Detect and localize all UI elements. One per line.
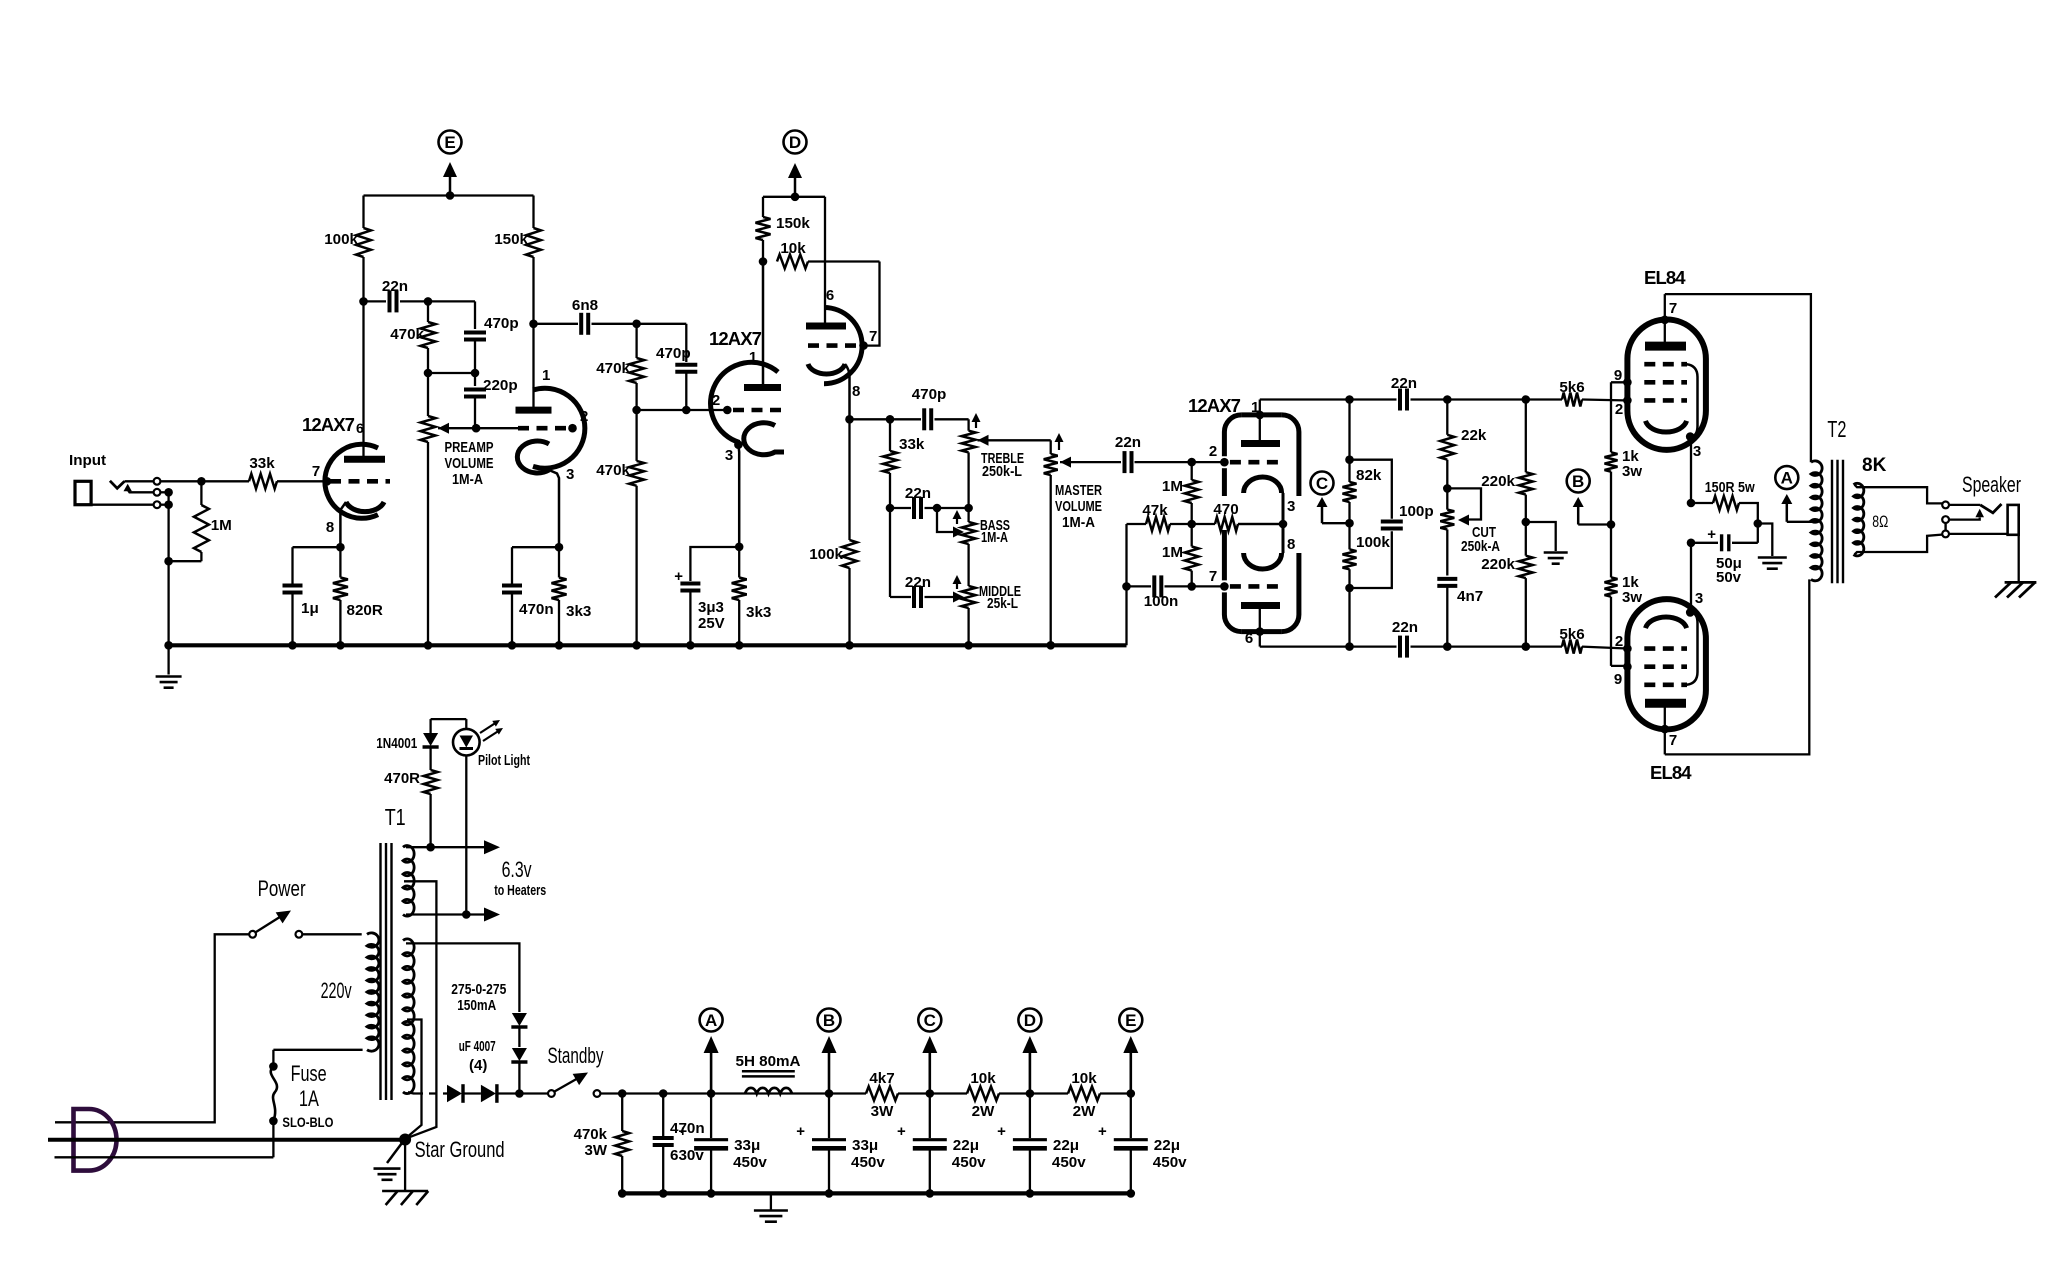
- svg-text:22n: 22n: [905, 574, 931, 591]
- svg-text:EL84: EL84: [1644, 267, 1686, 288]
- svg-text:22n: 22n: [1391, 375, 1417, 392]
- svg-text:2: 2: [1615, 401, 1623, 418]
- svg-text:50v: 50v: [1716, 569, 1742, 586]
- svg-text:450v: 450v: [851, 1154, 885, 1171]
- svg-text:D: D: [1024, 1011, 1036, 1030]
- svg-text:7: 7: [1669, 732, 1677, 749]
- svg-text:4k7: 4k7: [869, 1070, 894, 1087]
- svg-text:T1: T1: [385, 804, 406, 830]
- svg-text:3: 3: [1693, 443, 1701, 460]
- svg-text:470: 470: [1213, 501, 1238, 518]
- svg-text:3: 3: [1287, 498, 1295, 515]
- svg-text:470n: 470n: [519, 601, 554, 618]
- svg-text:Power: Power: [258, 876, 306, 901]
- svg-text:250k-L: 250k-L: [982, 463, 1022, 480]
- svg-text:B: B: [1572, 472, 1584, 491]
- svg-text:D: D: [789, 133, 801, 152]
- svg-text:3w: 3w: [1622, 463, 1642, 480]
- svg-text:8: 8: [1287, 536, 1295, 553]
- svg-text:C: C: [924, 1011, 936, 1030]
- svg-text:8: 8: [326, 519, 334, 536]
- svg-text:450v: 450v: [952, 1154, 986, 1171]
- svg-text:450v: 450v: [1052, 1154, 1086, 1171]
- svg-text:3: 3: [1695, 590, 1703, 607]
- svg-text:Input: Input: [69, 452, 106, 469]
- svg-text:150R 5w: 150R 5w: [1705, 479, 1755, 496]
- svg-text:450v: 450v: [1153, 1154, 1187, 1171]
- svg-text:3: 3: [725, 447, 733, 464]
- svg-text:1μ: 1μ: [301, 600, 319, 617]
- svg-text:150k: 150k: [494, 231, 528, 248]
- svg-text:470R: 470R: [384, 770, 420, 787]
- svg-text:33μ: 33μ: [852, 1137, 878, 1154]
- svg-text:1: 1: [749, 349, 757, 366]
- svg-text:2W: 2W: [1073, 1103, 1096, 1120]
- svg-text:A: A: [705, 1011, 717, 1030]
- svg-text:+: +: [897, 1123, 906, 1140]
- svg-text:Speaker: Speaker: [1962, 472, 2021, 497]
- svg-text:8Ω: 8Ω: [1872, 512, 1888, 531]
- svg-text:5k6: 5k6: [1559, 379, 1584, 396]
- svg-text:10k: 10k: [970, 1070, 996, 1087]
- svg-text:2: 2: [712, 392, 720, 409]
- svg-text:9: 9: [1614, 671, 1622, 688]
- svg-text:22μ: 22μ: [953, 1137, 979, 1154]
- svg-text:1M: 1M: [1162, 544, 1183, 561]
- svg-text:22n: 22n: [382, 278, 408, 295]
- svg-text:(4): (4): [469, 1057, 487, 1074]
- svg-text:VOLUME: VOLUME: [1055, 498, 1102, 515]
- svg-text:1M-A: 1M-A: [452, 471, 483, 488]
- svg-text:+: +: [997, 1123, 1006, 1140]
- svg-text:+: +: [1098, 1123, 1107, 1140]
- svg-text:1N4001: 1N4001: [376, 735, 417, 752]
- svg-text:E: E: [1125, 1011, 1136, 1030]
- svg-text:220v: 220v: [321, 978, 352, 1003]
- svg-text:12AX7: 12AX7: [1188, 395, 1241, 416]
- svg-text:220k: 220k: [1481, 473, 1515, 490]
- svg-text:7: 7: [869, 328, 877, 345]
- svg-text:3w: 3w: [1622, 589, 1642, 606]
- svg-text:1M: 1M: [211, 517, 232, 534]
- svg-text:PREAMP: PREAMP: [445, 439, 494, 456]
- svg-text:MASTER: MASTER: [1055, 482, 1102, 499]
- svg-text:3μ3: 3μ3: [698, 599, 724, 616]
- svg-text:to Heaters: to Heaters: [494, 882, 546, 899]
- svg-text:Pilot Light: Pilot Light: [478, 752, 530, 769]
- svg-text:1M-A: 1M-A: [1062, 514, 1095, 531]
- svg-text:+: +: [796, 1123, 805, 1140]
- svg-text:22n: 22n: [1115, 434, 1141, 451]
- svg-text:150mA: 150mA: [457, 997, 496, 1014]
- svg-text:450v: 450v: [733, 1154, 767, 1171]
- svg-text:1A: 1A: [299, 1086, 319, 1111]
- svg-text:3k3: 3k3: [566, 603, 591, 620]
- svg-text:22μ: 22μ: [1154, 1137, 1180, 1154]
- svg-text:Standby: Standby: [548, 1043, 604, 1068]
- svg-text:4n7: 4n7: [1457, 588, 1483, 605]
- svg-text:12AX7: 12AX7: [302, 414, 355, 435]
- svg-text:10k: 10k: [1071, 1070, 1097, 1087]
- svg-text:7: 7: [1209, 568, 1217, 585]
- svg-text:6.3v: 6.3v: [502, 857, 532, 882]
- svg-text:3W: 3W: [871, 1103, 894, 1120]
- svg-text:100n: 100n: [1144, 593, 1179, 610]
- svg-text:100k: 100k: [809, 546, 843, 563]
- svg-text:25k-L: 25k-L: [987, 595, 1018, 612]
- svg-text:2: 2: [580, 408, 588, 425]
- svg-text:+: +: [678, 1123, 687, 1140]
- svg-text:A: A: [1781, 469, 1793, 488]
- svg-text:47k: 47k: [1142, 502, 1168, 519]
- svg-text:470p: 470p: [484, 315, 519, 332]
- svg-text:100p: 100p: [1399, 503, 1434, 520]
- svg-text:6n8: 6n8: [572, 297, 598, 314]
- svg-text:2: 2: [1615, 633, 1623, 650]
- svg-text:470p: 470p: [912, 386, 947, 403]
- svg-text:1M: 1M: [1162, 478, 1183, 495]
- svg-text:220k: 220k: [1481, 556, 1515, 573]
- svg-text:Fuse: Fuse: [291, 1061, 327, 1086]
- svg-text:Star Ground: Star Ground: [415, 1137, 505, 1162]
- svg-text:9: 9: [1614, 367, 1622, 384]
- svg-text:3W: 3W: [585, 1142, 608, 1159]
- svg-text:470k: 470k: [596, 360, 630, 377]
- svg-text:470n: 470n: [670, 1120, 705, 1137]
- svg-text:3k3: 3k3: [746, 604, 771, 621]
- svg-text:1M-A: 1M-A: [981, 529, 1008, 546]
- svg-text:275-0-275: 275-0-275: [451, 981, 506, 998]
- svg-text:EL84: EL84: [1650, 762, 1692, 783]
- svg-text:6: 6: [356, 420, 364, 436]
- svg-text:470k: 470k: [390, 326, 424, 343]
- svg-text:8: 8: [852, 383, 860, 400]
- svg-text:7: 7: [312, 463, 320, 480]
- svg-text:1: 1: [542, 367, 550, 384]
- svg-text:5k6: 5k6: [1559, 626, 1584, 643]
- svg-text:25V: 25V: [698, 615, 725, 632]
- svg-text:B: B: [823, 1011, 835, 1030]
- svg-text:T2: T2: [1827, 416, 1846, 442]
- svg-text:E: E: [444, 133, 455, 152]
- svg-text:22n: 22n: [1392, 619, 1418, 636]
- svg-text:22μ: 22μ: [1053, 1137, 1079, 1154]
- svg-text:uF 4007: uF 4007: [459, 1038, 496, 1055]
- svg-text:3: 3: [566, 466, 574, 483]
- svg-text:33k: 33k: [899, 436, 925, 453]
- svg-text:7: 7: [1669, 300, 1677, 317]
- svg-text:VOLUME: VOLUME: [445, 455, 494, 472]
- svg-text:+: +: [1707, 526, 1716, 543]
- svg-text:5H 80mA: 5H 80mA: [736, 1053, 801, 1070]
- svg-text:470k: 470k: [596, 462, 630, 479]
- svg-text:C: C: [1316, 474, 1328, 493]
- svg-text:470k: 470k: [574, 1126, 608, 1143]
- svg-text:12AX7: 12AX7: [709, 328, 762, 349]
- svg-text:8K: 8K: [1862, 455, 1887, 476]
- svg-text:6: 6: [1245, 630, 1253, 647]
- svg-text:SLO-BLO: SLO-BLO: [282, 1114, 333, 1130]
- svg-text:100k: 100k: [1356, 534, 1390, 551]
- svg-text:100k: 100k: [324, 231, 358, 248]
- svg-text:22k: 22k: [1461, 427, 1487, 444]
- svg-text:22n: 22n: [905, 485, 931, 502]
- svg-text:150k: 150k: [776, 215, 810, 232]
- svg-text:2W: 2W: [972, 1103, 995, 1120]
- svg-text:33μ: 33μ: [734, 1137, 760, 1154]
- svg-text:250k-A: 250k-A: [1461, 538, 1500, 555]
- svg-text:2: 2: [1209, 443, 1217, 460]
- svg-text:470p: 470p: [656, 345, 691, 362]
- svg-text:82k: 82k: [1356, 467, 1382, 484]
- svg-text:10k: 10k: [780, 240, 806, 257]
- svg-text:820R: 820R: [347, 602, 383, 619]
- svg-text:33k: 33k: [249, 455, 275, 472]
- svg-text:220p: 220p: [483, 377, 518, 394]
- svg-text:6: 6: [826, 287, 834, 304]
